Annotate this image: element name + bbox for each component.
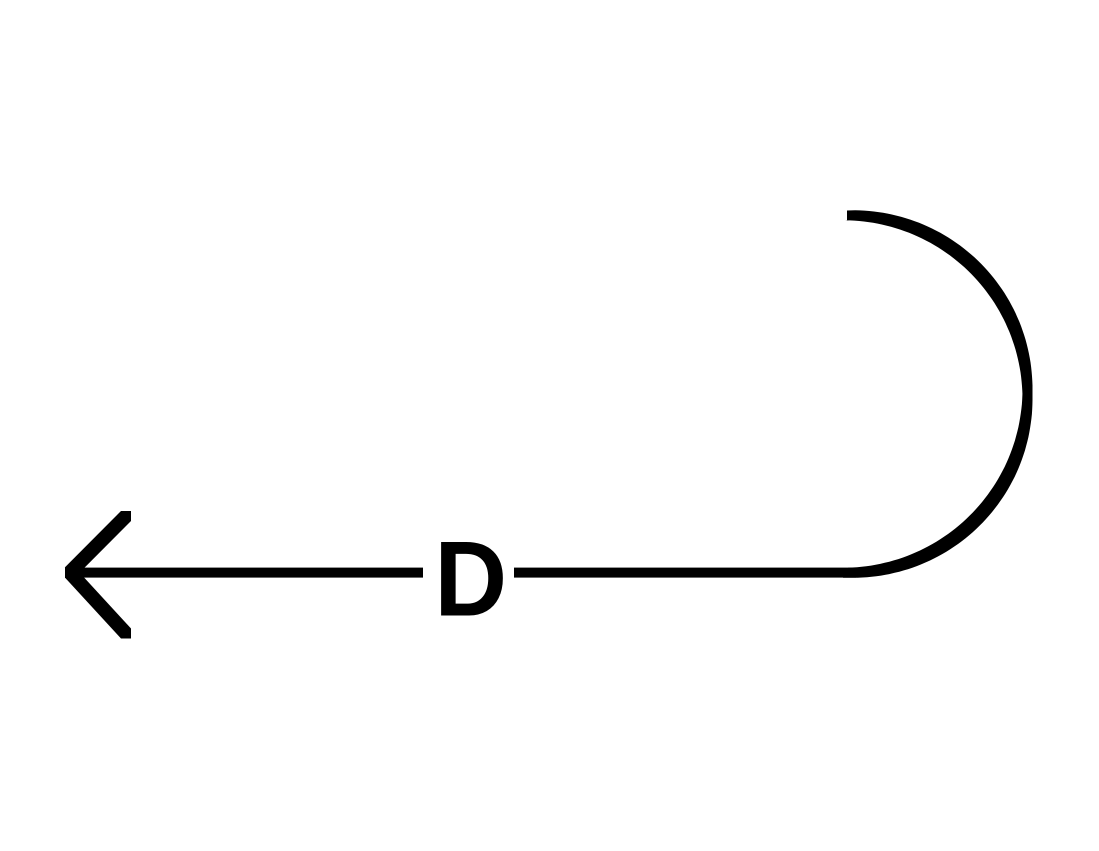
wire: right horizontal segment from label gap to curve <box>514 568 856 578</box>
arrowhead upper barb <box>65 511 131 577</box>
label D <box>434 520 507 639</box>
svg-text:D: D <box>434 520 507 639</box>
wire: left horizontal segment from arrow tip to label gap <box>65 568 423 578</box>
arrowhead lower barb <box>65 568 131 639</box>
arc: near-circular hook curving up and over on the right <box>843 210 1033 578</box>
